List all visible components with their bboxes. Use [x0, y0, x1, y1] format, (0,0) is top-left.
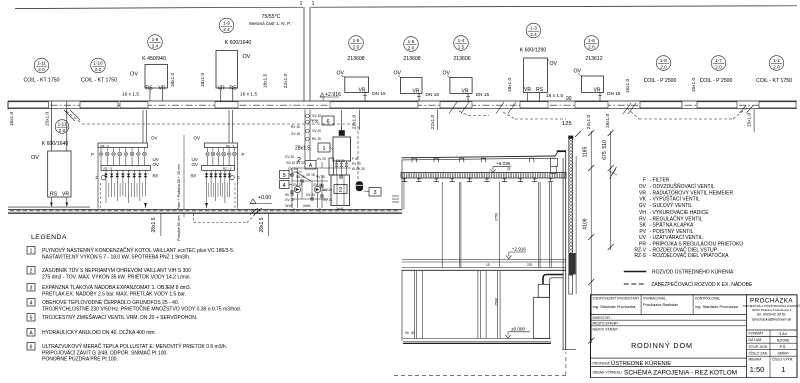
svg-text:VH: VH: [639, 210, 646, 216]
svg-text:18x1.0: 18x1.0: [170, 72, 176, 87]
svg-text:PRIPOJOVACÍ ZÁVIT G 3/48. ODPO: PRIPOJOVACÍ ZÁVIT G 3/48. ODPOR. SNÍMAČ …: [42, 349, 168, 356]
svg-text:6: 6: [30, 344, 33, 350]
svg-text:4: 4: [30, 300, 33, 306]
svg-text:Prochazka Rastislav: Prochazka Rastislav: [643, 302, 678, 307]
svg-text:2: 2: [339, 188, 343, 194]
svg-text:1: 1: [312, 1, 315, 7]
svg-text:16 x 1.5: 16 x 1.5: [240, 92, 257, 98]
svg-text:1: 1: [781, 365, 785, 374]
svg-text:VR: VR: [62, 191, 70, 197]
svg-text:15x1.0: 15x1.0: [625, 78, 631, 93]
svg-text:2750: 2750: [495, 213, 499, 221]
svg-text:ÚSTREDNÉ KÚRENIE: ÚSTREDNÉ KÚRENIE: [611, 360, 671, 367]
svg-text:ZÁSOBNÍK TÚV S NEPRIAMYM OHREV: ZÁSOBNÍK TÚV S NEPRIAMYM OHREVOM VAILLAN…: [42, 267, 191, 274]
svg-text:COIL - KT 1750: COIL - KT 1750: [81, 78, 117, 84]
svg-text:F: F: [643, 178, 646, 184]
svg-text:1-9: 1-9: [223, 21, 230, 26]
svg-text:PONORNÉ PÚZDRA PRE Pt 100.: PONORNÉ PÚZDRA PRE Pt 100.: [42, 356, 118, 363]
svg-text:1-11: 1-11: [58, 122, 67, 127]
svg-text:2.0: 2.0: [38, 67, 45, 72]
svg-text:COIL - P 2500: COIL - P 2500: [644, 78, 677, 84]
svg-text:HYDRAULICKÝ ANULOID DN 40. DĽŽ: HYDRAULICKÝ ANULOID DN 40. DĽŽKA 400 mm.: [42, 328, 156, 336]
svg-text:06000: 06000: [778, 351, 790, 356]
svg-text:22x1.0: 22x1.0: [586, 114, 592, 129]
svg-text:DN 15: DN 15: [607, 91, 621, 97]
svg-text:1-7: 1-7: [715, 58, 722, 63]
svg-text:GV 15: GV 15: [323, 198, 332, 202]
svg-text:1-4: 1-4: [458, 38, 465, 43]
svg-text:RS: RS: [50, 191, 58, 197]
svg-text:80: 80: [411, 331, 415, 335]
svg-text:VR: VR: [524, 87, 531, 93]
svg-text:2.0: 2.0: [773, 65, 780, 70]
svg-text:- VYKUROVACIE HADICE: - VYKUROVACIE HADICE: [650, 210, 710, 216]
svg-text:1.5: 1.5: [458, 45, 465, 50]
svg-text:KONTROLOVAL: KONTROLOVAL: [695, 296, 720, 300]
svg-text:125: 125: [562, 121, 572, 127]
svg-text:1-6: 1-6: [588, 38, 595, 43]
svg-text:OV: OV: [443, 71, 451, 77]
svg-text:15x1.0: 15x1.0: [45, 111, 51, 126]
svg-text:PROFESIA: PROFESIA: [593, 361, 611, 365]
svg-text:213612: 213612: [585, 56, 602, 62]
svg-text:15x1.0: 15x1.0: [691, 77, 697, 92]
svg-text:INVESTOR :: INVESTOR :: [593, 316, 612, 320]
svg-text:GV 20: GV 20: [312, 114, 321, 118]
svg-text:2.0: 2.0: [95, 67, 102, 72]
svg-text:TROJCESTNÝ ZMIEŠAVACÍ VENTIL V: TROJCESTNÝ ZMIEŠAVACÍ VENTIL VRM. DN 20 …: [42, 314, 197, 321]
svg-text:SK 20: SK 20: [336, 159, 345, 163]
svg-text:15x1.0: 15x1.0: [746, 112, 752, 127]
svg-text:RZ - V: RZ - V: [101, 144, 110, 148]
svg-text:UV 20: UV 20: [296, 161, 305, 165]
svg-text:OV: OV: [337, 71, 345, 77]
svg-text:F 20: F 20: [352, 157, 359, 161]
svg-text:A: A: [29, 330, 33, 336]
svg-text:- REGULAČNÝ VENTIL: - REGULAČNÝ VENTIL: [650, 215, 703, 222]
svg-text:1-8: 1-8: [660, 58, 667, 63]
svg-text:3: 3: [30, 285, 33, 291]
svg-text:2: 2: [30, 268, 33, 274]
svg-text:75/55°C: 75/55°C: [262, 14, 281, 20]
svg-text:Ing. Stanislav Prochazka: Ing. Stanislav Prochazka: [695, 304, 739, 309]
svg-text:15x1.0: 15x1.0: [9, 111, 15, 126]
svg-text:220: 220: [527, 263, 533, 267]
svg-text:275 dm3 - TOV. MAX. VÝKON 35 k: 275 dm3 - TOV. MAX. VÝKON 35 kW. PRIETOK…: [42, 273, 191, 280]
svg-text:SK 20: SK 20: [285, 193, 294, 197]
svg-text:22x1.0: 22x1.0: [283, 73, 289, 88]
svg-text:NÁZOV STAVBY :: NÁZOV STAVBY :: [593, 327, 620, 331]
svg-text:RV 15: RV 15: [312, 137, 321, 141]
svg-text:6/2006: 6/2006: [777, 337, 789, 342]
svg-text:DN 15: DN 15: [476, 92, 490, 98]
svg-text:- UZATVÁRACÍ VENTIL: - UZATVÁRACÍ VENTIL: [650, 234, 703, 241]
svg-text:22x1.0: 22x1.0: [430, 114, 436, 129]
svg-text:2500: 2500: [495, 298, 499, 306]
svg-text:18x1.0: 18x1.0: [200, 72, 206, 87]
svg-text:OV: OV: [153, 162, 160, 167]
svg-text:2.0: 2.0: [59, 128, 66, 133]
svg-text:- VYPÚŠŤACÍ VENTIL: - VYPÚŠŤACÍ VENTIL: [650, 195, 701, 203]
svg-text:VYPRACOVAL:: VYPRACOVAL:: [643, 296, 667, 300]
svg-text:213608: 213608: [403, 56, 420, 62]
svg-text:MIERKA: MIERKA: [749, 358, 763, 362]
svg-text:2.0: 2.0: [408, 46, 415, 51]
svg-text:2.0: 2.0: [660, 65, 667, 70]
svg-text:RV 20: RV 20: [316, 175, 325, 179]
svg-text:- SPÄTNÁ KLAPKA: - SPÄTNÁ KLAPKA: [650, 222, 695, 229]
svg-text:ČÍSLO VÝKR.: ČÍSLO VÝKR.: [772, 357, 793, 362]
svg-text:NASTAVITEĽNÝ VÝKON 5.7 - 18.0: NASTAVITEĽNÝ VÝKON 5.7 - 18.0 kW. SPOTRE…: [42, 253, 190, 260]
svg-text:ROZVOD ÚSTREDNÉHO KÚRENIA: ROZVOD ÚSTREDNÉHO KÚRENIA: [652, 269, 734, 276]
svg-text:DN 15: DN 15: [426, 92, 440, 98]
svg-text:COIL - KT 1750: COIL - KT 1750: [756, 78, 792, 84]
svg-text:P.Š.: P.Š.: [780, 344, 787, 349]
svg-text:A: A: [309, 163, 313, 169]
svg-text:- ROZDEĽOVAČ DIEL VPIATOČKA: - ROZDEĽOVAČ DIEL VPIATOČKA: [650, 252, 730, 259]
svg-text:KLOK 20: KLOK 20: [352, 167, 365, 171]
svg-text:213608: 213608: [347, 56, 364, 62]
svg-text:1:50: 1:50: [750, 365, 765, 374]
svg-text:UV: UV: [639, 235, 647, 241]
svg-text:GV 15: GV 15: [291, 132, 300, 136]
svg-text:OV: OV: [394, 71, 402, 77]
svg-text:15: 15: [486, 263, 490, 267]
svg-text:GV: GV: [639, 203, 647, 209]
svg-text:1: 1: [300, 1, 303, 7]
svg-text:1-1: 1-1: [773, 58, 780, 63]
svg-text:16 x 1.5: 16 x 1.5: [546, 93, 563, 99]
svg-text:SCHÉMA ZAPOJENIA - REZ KOTLOM: SCHÉMA ZAPOJENIA - REZ KOTLOM: [624, 368, 737, 377]
svg-text:VR: VR: [217, 86, 225, 92]
svg-text:- GUĽOVÝ VENTIL: - GUĽOVÝ VENTIL: [650, 202, 693, 209]
svg-text:2xVK: 2xVK: [336, 207, 344, 211]
svg-text:SK: SK: [639, 223, 646, 229]
svg-text:1-5: 1-5: [353, 38, 360, 43]
svg-text:DN 15: DN 15: [372, 91, 386, 97]
svg-text:RV: RV: [639, 216, 647, 222]
svg-text:3: 3: [373, 190, 376, 196]
svg-text:FORMÁT: FORMÁT: [749, 332, 765, 336]
svg-text:±0.000: ±0.000: [511, 327, 525, 332]
svg-text:rprochazka@kiosnam.sk: rprochazka@kiosnam.sk: [752, 318, 792, 322]
svg-text:6: 6: [326, 119, 329, 125]
svg-text:OV: OV: [31, 155, 39, 161]
svg-text:GV 15: GV 15: [293, 183, 302, 187]
svg-text:GV 15: GV 15: [313, 183, 322, 187]
svg-text:12: 12: [507, 167, 511, 171]
svg-text:tel. 0903/42 39 51: tel. 0903/42 39 51: [757, 313, 786, 317]
svg-text:1-11: 1-11: [37, 61, 46, 66]
svg-text:GV 20: GV 20: [286, 161, 295, 165]
svg-text:VR: VR: [158, 86, 166, 92]
svg-text:OV: OV: [243, 54, 251, 60]
svg-text:1185: 1185: [583, 146, 589, 157]
svg-text:18x1.0: 18x1.0: [605, 113, 611, 128]
svg-text:16 x 1.5: 16 x 1.5: [122, 92, 139, 98]
svg-text:28x1.5: 28x1.5: [259, 217, 265, 232]
svg-text:LEGENDA: LEGENDA: [31, 234, 67, 241]
svg-text:RS: RS: [145, 86, 153, 92]
svg-text:RS: RS: [229, 86, 237, 92]
svg-text:K 600/1640: K 600/1640: [42, 141, 69, 147]
svg-text:RZ - V: RZ - V: [226, 144, 235, 148]
svg-text:OV: OV: [151, 136, 158, 141]
svg-text:18x1.0: 18x1.0: [507, 77, 513, 92]
svg-text:RODINNÝ DOM: RODINNÝ DOM: [631, 341, 693, 350]
svg-text:1-5: 1-5: [408, 39, 415, 44]
svg-text:VK 15: VK 15: [306, 173, 315, 177]
svg-text:UV 20: UV 20: [317, 157, 326, 161]
svg-text:- FILTER: - FILTER: [650, 178, 670, 184]
svg-text:EXPANZNÁ TLAKOVÁ NÁDOBA EXPANZ: EXPANZNÁ TLAKOVÁ NÁDOBA EXPANZOMAT 1. OB…: [42, 284, 191, 291]
svg-text:3 A4: 3 A4: [779, 331, 788, 336]
svg-text:28x1.5: 28x1.5: [295, 146, 310, 152]
svg-text:2xVR: 2xVR: [285, 204, 293, 208]
svg-text:GV 20: GV 20: [285, 198, 294, 202]
svg-text:COIL - P 2500: COIL - P 2500: [700, 78, 733, 84]
svg-text:RZ - S: RZ - S: [104, 167, 113, 171]
svg-text:GV 20: GV 20: [312, 129, 321, 133]
svg-text:Ing. Stanislav Prochazka: Ing. Stanislav Prochazka: [593, 304, 637, 309]
svg-text:2.4: 2.4: [530, 32, 537, 37]
svg-text:COIL - KT 1750: COIL - KT 1750: [23, 78, 59, 84]
svg-text:OV: OV: [574, 69, 582, 75]
svg-text:4: 4: [283, 183, 286, 189]
svg-text:ČÍSLO ZAK.: ČÍSLO ZAK.: [749, 350, 769, 355]
svg-text:K 600/1290: K 600/1290: [520, 48, 547, 54]
svg-text:K 600/1640: K 600/1640: [225, 40, 252, 46]
svg-text:213606: 213606: [453, 56, 470, 62]
svg-text:SK 20: SK 20: [296, 175, 305, 179]
svg-text:RP: RP: [153, 174, 159, 179]
svg-text:RP: RP: [191, 174, 197, 179]
svg-text:- RADIÁTOROVÝ VENTIL HEIMEIER: - RADIÁTOROVÝ VENTIL HEIMEIER: [650, 189, 734, 196]
svg-text:Potrubie 80 mm: Potrubie 80 mm: [177, 215, 181, 240]
svg-text:GV 20: GV 20: [288, 167, 297, 171]
svg-text:Meraná časť 1. N. P.: Meraná časť 1. N. P.: [249, 21, 291, 26]
svg-text:- ODVZDUŠŇOVACÍ VENTIL: - ODVZDUŠŇOVACÍ VENTIL: [650, 183, 715, 190]
svg-text:1: 1: [322, 146, 325, 152]
svg-text:OV: OV: [639, 184, 647, 190]
svg-text:OV: OV: [194, 136, 201, 141]
svg-text:VR: VR: [639, 190, 646, 196]
svg-text:2.0: 2.0: [715, 65, 722, 70]
svg-text:675 510: 675 510: [602, 140, 608, 160]
svg-text:PV: PV: [639, 229, 646, 235]
svg-text:+2.916: +2.916: [512, 247, 527, 252]
svg-text:2xSK: 2xSK: [303, 204, 311, 208]
svg-text:2.4: 2.4: [152, 44, 159, 49]
svg-text:OBEHOVÉ TEPLOVODNÉ ČERPADLO GR: OBEHOVÉ TEPLOVODNÉ ČERPADLO GRUNDFOS 25 …: [42, 299, 179, 306]
svg-text:GV 20: GV 20: [285, 155, 294, 159]
svg-text:K 450/940: K 450/940: [142, 56, 166, 62]
svg-text:F 20: F 20: [312, 120, 319, 124]
svg-text:18x1.5: 18x1.5: [263, 73, 269, 88]
svg-text:- POISTNÝ VENTIL: - POISTNÝ VENTIL: [650, 228, 694, 235]
svg-text:1-3: 1-3: [530, 26, 537, 31]
svg-text:RZ - S: RZ - S: [223, 167, 232, 171]
svg-text:4109: 4109: [583, 218, 589, 229]
svg-text:+6.036: +6.036: [496, 161, 511, 166]
svg-text:PLYNOVÝ NÁSTENNÝ KONDENZAČNÝ K: PLYNOVÝ NÁSTENNÝ KONDENZAČNÝ KOTOL VAILL…: [42, 247, 234, 254]
svg-text:VK: VK: [639, 197, 646, 203]
svg-text:OV: OV: [192, 162, 199, 167]
svg-text:RS: RS: [536, 87, 544, 93]
svg-text:P: P: [242, 152, 245, 157]
svg-text:28x1.5: 28x1.5: [151, 217, 157, 232]
svg-text:1-10: 1-10: [93, 61, 103, 66]
svg-text:DÁTUM: DÁTUM: [749, 338, 762, 342]
svg-text:TROJRÝCHLOSTNÉ 230 V/50 Hz. PR: TROJRÝCHLOSTNÉ 230 V/50 Hz. PRIETOČNÉ MN…: [42, 304, 241, 312]
svg-text:1: 1: [30, 248, 33, 254]
svg-text:RZ-S: RZ-S: [634, 253, 646, 259]
svg-text:PRETLAK EX. NÁDOBY 2.5 bar. MA: PRETLAK EX. NÁDOBY 2.5 bar. MAX. PRETLAK…: [42, 290, 186, 297]
svg-text:1-9: 1-9: [152, 37, 159, 42]
svg-text:92001 Piešťany, Kukučínova 3: 92001 Piešťany, Kukučínova 3: [752, 308, 792, 312]
svg-text:RV 15: RV 15: [291, 125, 300, 129]
svg-text:5: 5: [283, 173, 286, 179]
svg-text:STUP. DOK.: STUP. DOK.: [749, 345, 769, 349]
svg-text:OBSAH VÝKRESU: OBSAH VÝKRESU: [593, 371, 623, 375]
svg-text:+0.00: +0.00: [258, 195, 271, 201]
svg-text:ZABEZPEČOVACÍ ROZVOD K EX. NÁD: ZABEZPEČOVACÍ ROZVOD K EX. NÁDOBE: [651, 281, 753, 288]
svg-text:GV 20: GV 20: [306, 193, 315, 197]
svg-text:OV: OV: [550, 61, 558, 67]
svg-text:2.0: 2.0: [353, 45, 360, 50]
svg-text:22x1.0: 22x1.0: [352, 114, 358, 129]
svg-text:5: 5: [30, 315, 33, 321]
svg-text:OV: OV: [130, 72, 138, 78]
svg-text:2.4: 2.4: [223, 27, 230, 32]
svg-text:PV 20: PV 20: [352, 162, 361, 166]
svg-text:P: P: [91, 152, 94, 157]
svg-text:Poter + Podlaha 85 + 15 mm: Poter + Podlaha 85 + 15 mm: [177, 164, 181, 210]
svg-text:ZODPOVEDNÝ PROJEKTANT: ZODPOVEDNÝ PROJEKTANT: [593, 296, 640, 300]
svg-text:50: 50: [405, 331, 409, 335]
svg-text:MESTO STAVBY :: MESTO STAVBY :: [593, 322, 621, 326]
svg-text:ULTRAZVUKOVÝ MERAČ TEPLA POLLU: ULTRAZVUKOVÝ MERAČ TEPLA POLLUSTAT E. ME…: [42, 343, 227, 350]
svg-text:90: 90: [566, 96, 572, 102]
svg-text:2.0: 2.0: [588, 45, 595, 50]
